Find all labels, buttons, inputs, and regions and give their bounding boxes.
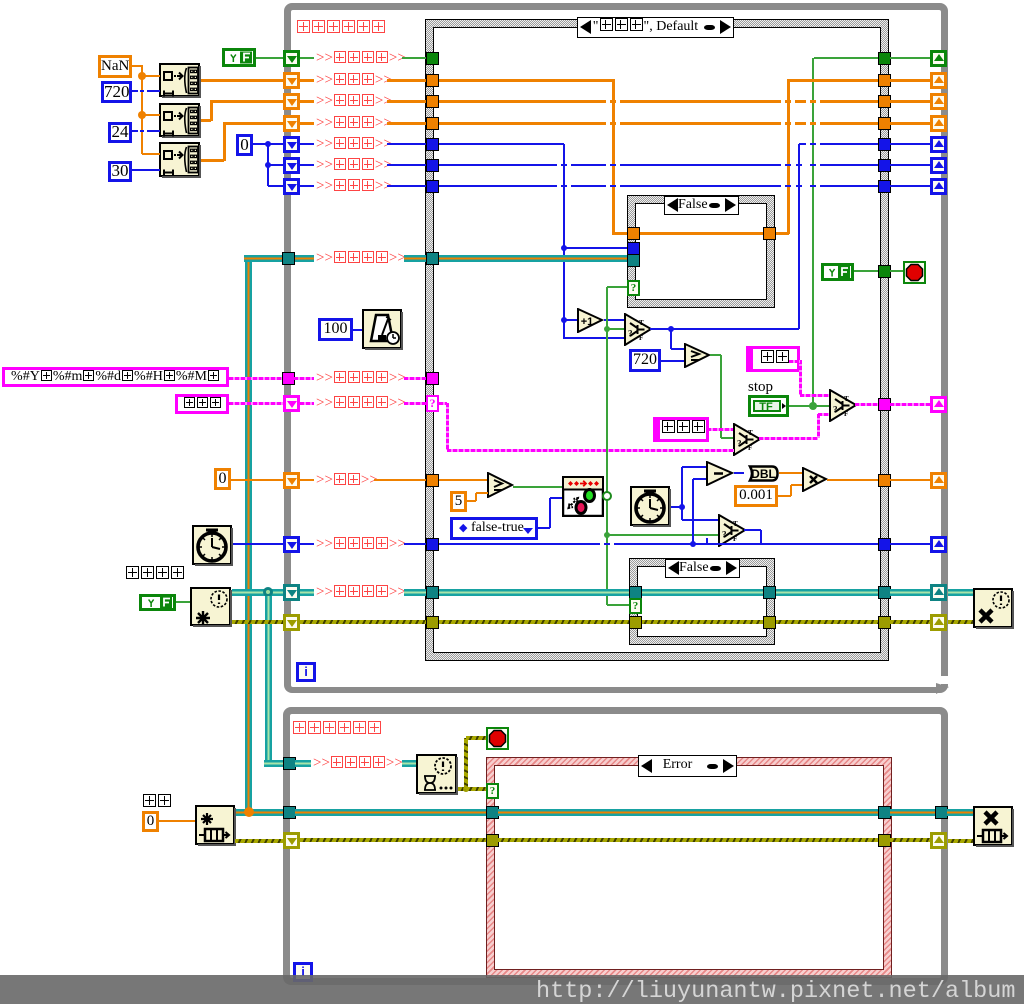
wire 時間格式 seg2 (string) bbox=[404, 377, 426, 380]
label 日計次 bbox=[316, 177, 392, 195]
label 關機動作 bbox=[316, 49, 406, 67]
wire error in case2 (error cluster) bbox=[641, 620, 764, 624]
shift register left error bbox=[283, 614, 300, 631]
wire 24 out a bbox=[132, 130, 138, 132]
label 時間重置 bbox=[316, 535, 406, 553]
tunnel case-right 動作控制 bbox=[878, 398, 891, 411]
tunnel case-left error bbox=[426, 616, 439, 629]
junction error junction loop2 bbox=[463, 786, 469, 792]
wire select3 out (string) bbox=[759, 437, 818, 440]
wire long string wire to select3 bottom (string) bbox=[447, 449, 734, 452]
wire 取樣訊號 in case2 (notifier refnum) bbox=[641, 589, 764, 596]
wire 資料 0 out bbox=[159, 820, 195, 822]
wire error to errcase ? (error cluster) bbox=[466, 787, 486, 791]
case structure (main) border bbox=[425, 19, 889, 661]
wire TF2 out bbox=[854, 270, 878, 272]
icon create notifier 米! bbox=[190, 587, 232, 627]
node greater-equal 5 bbox=[487, 472, 514, 498]
string constant 時記錄 (select input) bbox=[653, 417, 709, 442]
wire queue seg1 (queue refnum) bbox=[295, 255, 314, 262]
svg-text:?: ? bbox=[628, 329, 633, 339]
wire 5 to >= bottom bbox=[476, 492, 488, 494]
wire 時間重置 feed bbox=[233, 543, 284, 545]
tunnel case-left 時計次 bbox=[426, 159, 439, 172]
shift register right row592 bbox=[930, 584, 947, 601]
wire error rise to stop (error cluster vertical) bbox=[464, 738, 468, 789]
junction select1 out junction bbox=[668, 326, 674, 332]
wire 存檔 down (string vertical) bbox=[799, 360, 802, 395]
node select1 bbox=[624, 313, 653, 346]
crossing gap row186 x813 bbox=[806, 184, 810, 187]
wire 秒記錄 seg1 bbox=[300, 79, 314, 82]
junction notifier junction ring bbox=[263, 587, 273, 597]
wire trunk to select1 ? bbox=[607, 328, 624, 330]
wire error to case (error cluster) bbox=[300, 620, 426, 624]
wire 720 out a bbox=[132, 90, 138, 92]
label 日記錄 bbox=[316, 114, 392, 132]
wire 720 out b bbox=[147, 90, 160, 92]
label 資料 (black) bbox=[142, 794, 172, 811]
tunnel case-right row80 bbox=[878, 74, 891, 87]
wire TF out bbox=[256, 57, 284, 59]
wire array3 out riser bbox=[223, 122, 226, 161]
wire 存檔 elbow (string) bbox=[800, 394, 829, 397]
wire select1 rise bbox=[798, 144, 800, 329]
wire error to stop icon (error cluster) bbox=[466, 736, 486, 740]
wire queue corner to loop1 (queue refnum) bbox=[244, 255, 284, 262]
shift register right row404 bbox=[930, 396, 947, 413]
wire 動作控制 feed (string) bbox=[229, 402, 284, 405]
wire to array3 elem bbox=[142, 153, 160, 155]
shift register left 秒記錄 bbox=[283, 72, 300, 89]
shift register left 動作控制 bbox=[283, 395, 300, 412]
wire 時計次 seg1 bbox=[300, 164, 314, 166]
shift register loop2-right error bbox=[930, 832, 947, 849]
constant 30 bbox=[108, 161, 132, 182]
tunnel case2-left 取樣訊號 bbox=[629, 586, 642, 599]
shift register left 關機動作 bbox=[283, 50, 300, 67]
tunnel case2-right error bbox=[763, 616, 776, 629]
wire 秒計次 left part bbox=[439, 143, 564, 145]
wire select3 out rise (string vertical) bbox=[817, 414, 820, 438]
wire 取樣訊號 seg2 (notifier refnum) bbox=[404, 589, 426, 596]
wire 0 to 日計次 bbox=[268, 185, 284, 187]
wire 0.001 rise bbox=[790, 485, 792, 496]
To DBL conversion bbox=[744, 465, 779, 482]
tunnel case-right row58 bbox=[878, 52, 891, 65]
stop sign icon 2 (red octagon) bbox=[486, 727, 509, 750]
wire select1 bottom in bbox=[564, 337, 625, 339]
tunnel case1-right 秒記錄 bbox=[763, 227, 776, 240]
icon release notifier X! bbox=[973, 588, 1014, 629]
wire NaN out bbox=[132, 65, 142, 67]
wire stop out bbox=[789, 405, 829, 407]
wire queue in loop2 (queue refnum) bbox=[295, 809, 486, 816]
wire 0 out bbox=[253, 143, 284, 145]
constant 720 bbox=[101, 81, 132, 103]
label 秒計次 bbox=[316, 135, 392, 153]
wire array3 out bbox=[201, 159, 224, 162]
wire 計時 row into >=5 bbox=[439, 479, 488, 481]
wire 秒記錄 rise bbox=[787, 79, 790, 234]
case structure (Error) border bbox=[486, 757, 892, 978]
wire queue to release (queue refnum) bbox=[947, 809, 973, 816]
node multiply bbox=[802, 467, 828, 492]
tunnel case-left 計時 bbox=[426, 474, 439, 487]
junction 0-branch2 bbox=[265, 162, 271, 168]
svg-text:F: F bbox=[844, 410, 848, 418]
while loop 1 (動作控制迴圈) frame bbox=[284, 3, 948, 693]
wire 日計次 row bbox=[439, 185, 878, 187]
wire queue seg2 (queue refnum) bbox=[404, 255, 426, 262]
wire 取樣訊號 seg1 (notifier refnum) bbox=[300, 589, 314, 596]
label 資料取樣迴圈 bbox=[292, 720, 382, 738]
wire express out bbox=[605, 495, 607, 497]
shift register right row58 bbox=[930, 50, 947, 67]
wire 時計次 seg2 bbox=[387, 164, 426, 166]
wire 秒記錄 into case1 bbox=[612, 232, 628, 235]
wire loop2 error row b (error cluster) bbox=[498, 838, 878, 842]
wire multiply out bbox=[827, 479, 878, 481]
crossing gap row123 x788 bbox=[781, 121, 785, 125]
wire 5 out bbox=[467, 500, 476, 502]
crossing gap row101 x788 bbox=[781, 99, 785, 103]
tunnel case-right 關機確認 bbox=[878, 265, 891, 278]
wire row165 to loop SR bbox=[890, 164, 930, 166]
constant 0 (blue) bbox=[236, 134, 253, 156]
node select3 (時記錄/存檔) bbox=[733, 423, 762, 456]
icon metronome (wait until ms) bbox=[362, 309, 403, 350]
wire clock2 to select4 top bbox=[682, 519, 720, 521]
shift register right row622 bbox=[930, 614, 947, 631]
case2 selector terminal ? bbox=[629, 598, 642, 614]
shift register left 秒計次 bbox=[283, 136, 300, 153]
crossing gap row165 x813 bbox=[806, 163, 810, 166]
wire clock2 drop bbox=[681, 507, 683, 520]
tunnel case1-left queue bbox=[627, 254, 640, 267]
wire error to release (error cluster) bbox=[948, 620, 973, 624]
wire select2 to loop SR (string) bbox=[890, 403, 930, 406]
wire 取樣訊號 in case R (notifier refnum) bbox=[775, 589, 878, 596]
tunnel case-right row165 bbox=[878, 159, 891, 172]
wire array1 out bbox=[201, 79, 284, 82]
tunnel case-left 關機動作 bbox=[426, 52, 439, 65]
wire row80 to loop SR bbox=[890, 79, 930, 82]
wire 秒記錄 out of case1 bbox=[775, 232, 789, 235]
wire 時間重置 to loop SR bbox=[890, 543, 930, 545]
junction 秒計次 branch to case1 bbox=[561, 245, 567, 251]
junction 秒計次 branch to +1 bbox=[561, 317, 567, 323]
svg-text:TF: TF bbox=[759, 401, 773, 413]
wire +1 out bbox=[604, 319, 625, 321]
wire notifier drop to loop2 (notifier refnum vertical) bbox=[265, 596, 272, 766]
wire 日記錄 seg2 bbox=[387, 122, 426, 125]
wire ? out (string) bbox=[439, 402, 447, 405]
shift register right row480 bbox=[930, 472, 947, 489]
junction trunk at select1 bbox=[604, 326, 610, 332]
shift register left 計時 bbox=[283, 472, 300, 489]
wire +1 in bbox=[564, 319, 577, 321]
wire >=5 out (bool) bbox=[513, 486, 562, 488]
wire row123 to loop SR bbox=[890, 122, 930, 125]
case selector label inner 1: False bbox=[664, 196, 739, 215]
wire 時間重置 seg2 bbox=[404, 543, 426, 545]
tunnel case-left 時間重置 bbox=[426, 538, 439, 551]
tunnel case1-left 秒記錄 bbox=[627, 227, 640, 240]
label 動作控制迴圈 bbox=[296, 19, 386, 37]
wire 存檔 to select3 top (string) bbox=[789, 360, 800, 363]
shift register left 時間重置 bbox=[283, 536, 300, 553]
constant 5 bbox=[450, 491, 467, 512]
tunnel errcase-left queue bbox=[486, 806, 499, 819]
wire 時計次 row bbox=[439, 164, 878, 166]
label stop (black) bbox=[748, 379, 773, 396]
shift register left 日記錄 bbox=[283, 115, 300, 132]
crossing gap row186 x613 bbox=[606, 184, 610, 187]
wire false-true rise bbox=[549, 498, 551, 528]
wire 計時 to loop SR bbox=[890, 479, 930, 481]
svg-text:?: ? bbox=[737, 439, 742, 449]
svg-text:T: T bbox=[748, 429, 753, 437]
wire clock2 to subtract top bbox=[682, 466, 706, 468]
crossing gap row123 x613 bbox=[606, 121, 610, 125]
constant NaN bbox=[98, 55, 132, 78]
wire false-true out bbox=[538, 527, 550, 529]
wire queue to loop2 right (queue refnum) bbox=[890, 809, 935, 816]
wire 時記錄c to select3 (string) bbox=[707, 428, 734, 431]
wire select3 to select2 bottom (string) bbox=[818, 413, 829, 416]
wire row58 to loop SR bbox=[890, 57, 930, 59]
crossing gap row101 x613 bbox=[606, 99, 610, 103]
wire 關機動作 seg2 bbox=[402, 57, 426, 59]
junction feed array1 bbox=[138, 72, 146, 80]
loop1 corner notch bbox=[938, 676, 950, 684]
svg-text:T: T bbox=[844, 395, 849, 403]
wire array2 out riser bbox=[210, 100, 213, 121]
constant 100 (wait ms) bbox=[318, 318, 353, 341]
string constant 時間格式 %#Y年%#m月%#d日%#H時%#M分 bbox=[2, 367, 229, 387]
label 資料擷取 bbox=[316, 249, 406, 267]
wire 秒計次 drop bbox=[563, 144, 565, 339]
wire error to loop SR (error cluster) bbox=[890, 620, 930, 624]
tunnel case2-left error bbox=[629, 616, 642, 629]
case1 selector terminal ? bbox=[627, 280, 640, 296]
wire 0.001 to multiply bbox=[791, 484, 802, 486]
shift register right row165 bbox=[930, 157, 947, 174]
wire row101 to loop SR bbox=[890, 100, 930, 103]
tunnel errcase-left error bbox=[486, 834, 499, 847]
label 取樣訊號 (black) bbox=[125, 566, 185, 583]
crossing gap row544 x607 bbox=[600, 542, 604, 545]
wire row186 to loop SR bbox=[890, 185, 930, 187]
wire 秒計次 to case1 tunnel bbox=[564, 247, 628, 249]
wire 關機動作 seg1 bbox=[300, 57, 314, 59]
crossing gap row186 x564 bbox=[557, 184, 561, 187]
constant 0 (資料) bbox=[142, 811, 159, 832]
wire 秒記錄 inside case1 bbox=[640, 232, 763, 235]
junction clock2 junction bbox=[679, 504, 685, 510]
wire notifier band over trunk (notifier refnum) bbox=[600, 589, 614, 596]
tunnel case-right 計時 bbox=[878, 474, 891, 487]
wire 日計次 seg1 bbox=[300, 185, 314, 187]
wire 秒記錄 seg2 bbox=[387, 79, 426, 82]
wire to array1 elem bbox=[142, 75, 160, 77]
wire 秒記錄 drop bbox=[612, 79, 615, 234]
label 動作控制 bbox=[316, 394, 406, 412]
case selector label inner 2: False bbox=[665, 559, 740, 578]
crossing gap row165 x613 bbox=[606, 163, 610, 166]
wire ? drop (string vertical) bbox=[446, 403, 449, 450]
tunnel case-right row186 bbox=[878, 180, 891, 193]
enum constant false-true bbox=[450, 517, 538, 540]
wire 動作控制 seg1 (string) bbox=[300, 402, 314, 405]
wire 30 out bbox=[132, 169, 160, 171]
boolean constant TF 取樣訊號 (F) bbox=[139, 594, 176, 611]
tunnel errcase-right queue bbox=[878, 806, 891, 819]
iteration terminal i (loop1) bbox=[296, 662, 316, 682]
wire to case1 ? bbox=[607, 286, 627, 288]
tunnel case-left 秒計次 bbox=[426, 138, 439, 151]
wire 時間格式 feed (string) bbox=[229, 377, 284, 380]
wire 日記錄 seg1 bbox=[300, 122, 314, 125]
wire wait-notifier error out (error cluster) bbox=[458, 787, 466, 791]
boolean constant TF top-left (F) bbox=[222, 48, 256, 67]
crossing gap row165 x799 bbox=[792, 163, 796, 166]
tunnel errcase-right error bbox=[878, 834, 891, 847]
wire to case2 ? bbox=[607, 604, 629, 606]
wire TF to notifier bbox=[176, 601, 190, 603]
svg-text:?: ? bbox=[833, 405, 838, 415]
tunnel case-right row123 bbox=[878, 117, 891, 130]
junction notifier junction ring inner bbox=[266, 590, 270, 594]
node subtract bbox=[706, 461, 734, 486]
wire 取樣訊號 to loop SR (notifier refnum) bbox=[890, 589, 930, 596]
icon release queue X-Ⅲ→ bbox=[973, 806, 1014, 847]
wire DBL out bbox=[779, 472, 802, 474]
label 時間格式 bbox=[316, 369, 406, 387]
tunnel case-left 時間格式 bbox=[426, 372, 439, 385]
wire 計時 feed bbox=[231, 479, 284, 481]
wire 時間格式 seg1 (string) bbox=[294, 377, 314, 380]
crossing gap row101 x813 bbox=[806, 99, 810, 103]
wire array2 to SR bbox=[211, 100, 284, 103]
tunnel case-left 時記錄 bbox=[426, 95, 439, 108]
wire trunk to select4 ? bbox=[607, 534, 720, 536]
watermark band bbox=[0, 975, 1024, 1004]
tunnel case1-left 秒計次 bbox=[627, 242, 640, 255]
wire loop2 取樣訊號 seg1 (notifier refnum) bbox=[295, 760, 311, 767]
node select2 (to 動作控制 SR) bbox=[829, 389, 858, 422]
svg-text:T: T bbox=[639, 319, 644, 327]
node select4 (time reset) bbox=[718, 514, 747, 547]
tunnel case-right 時間重置 bbox=[878, 538, 891, 551]
wire select4 out drop bbox=[760, 530, 762, 544]
wire 時記錄 seg1 bbox=[300, 100, 314, 103]
case selector terminal ? bbox=[426, 395, 439, 412]
shift register right row80 bbox=[930, 72, 947, 89]
label 時計次 bbox=[316, 156, 392, 174]
svg-text:T: T bbox=[733, 520, 738, 528]
wire 0 to 時計次 bbox=[268, 164, 284, 166]
wire 時記錄 row bbox=[439, 100, 878, 103]
tunnel case-left 取樣訊號 bbox=[426, 586, 439, 599]
wire loop2 error to release (error cluster) bbox=[948, 839, 973, 843]
icon initialize array 2 bbox=[159, 103, 201, 138]
wire clock2 rise bbox=[681, 467, 683, 507]
boolean constant TF in-case right (F) bbox=[821, 263, 854, 281]
wire row 544 in case bbox=[439, 543, 878, 545]
watermark url text bbox=[536, 978, 1015, 1005]
wire 100 out bbox=[353, 329, 362, 331]
tunnel case-right 取樣訊號 bbox=[878, 586, 891, 599]
wire array3 to SR bbox=[224, 122, 284, 125]
wire subtract out bbox=[734, 472, 744, 474]
wire row544 riser to select4 bbox=[706, 538, 708, 544]
crossing gap row165 x564 bbox=[557, 163, 561, 166]
label 取樣訊號 bbox=[316, 583, 406, 601]
wire NaN vertical feeder bbox=[141, 65, 143, 154]
tunnel case-right row144 bbox=[878, 138, 891, 151]
shift register left 日計次 bbox=[283, 178, 300, 195]
iteration terminal i (loop2) bbox=[293, 962, 313, 982]
stop sign icon (red octagon) bbox=[903, 261, 926, 284]
tunnel loop2-right queue bbox=[935, 806, 948, 819]
wire 秒記錄 right part bbox=[788, 79, 878, 82]
wire to >=720 top bbox=[671, 348, 684, 350]
wire row544 rise to subtract bbox=[692, 479, 694, 544]
case selector label main: "秒記錄", Default bbox=[577, 17, 734, 38]
wire >=720 down to select2? bbox=[720, 355, 722, 438]
crossing gap row186 x788 bbox=[781, 184, 785, 187]
shift register right row544 bbox=[930, 536, 947, 553]
tunnel case-left 秒記錄 bbox=[426, 74, 439, 87]
wire 秒計次 seg1 bbox=[300, 143, 314, 145]
wire 關機動作 wire in case bbox=[814, 57, 878, 59]
icon clock (time reset source) bbox=[192, 525, 233, 566]
wire notifier elbow into loop2 (notifier refnum) bbox=[264, 760, 284, 767]
label 時記錄 bbox=[316, 92, 392, 110]
shift register left 時記錄 bbox=[283, 93, 300, 110]
wire error from notifier (error cluster) bbox=[232, 620, 284, 624]
label 計時 bbox=[316, 471, 378, 489]
svg-text:F: F bbox=[733, 535, 737, 543]
wire express boolean trunk bbox=[606, 287, 608, 605]
wire queue in errcase (queue refnum) bbox=[498, 809, 878, 816]
wire 秒計次 seg2 bbox=[387, 143, 426, 145]
wire 動作控制 seg2 (string) bbox=[404, 402, 426, 405]
tunnel case-right row101 bbox=[878, 95, 891, 108]
shift register left 時計次 bbox=[283, 157, 300, 174]
wire clock2 out bbox=[671, 506, 682, 508]
junction ring express out bbox=[602, 491, 612, 501]
tunnel case-right error bbox=[878, 616, 891, 629]
wire select1 out bbox=[650, 328, 799, 330]
wire 時記錄 seg2 bbox=[387, 100, 426, 103]
junction queue junction bbox=[244, 807, 254, 817]
wire 720 to >= bottom bbox=[661, 360, 684, 362]
wire 日計次 seg2 bbox=[387, 185, 426, 187]
boolean control stop (TF) bbox=[748, 395, 789, 417]
wire select2 out (string) bbox=[855, 403, 878, 406]
wire stop-chain vertical bbox=[812, 58, 814, 406]
wire error in case R (error cluster) bbox=[775, 620, 878, 624]
icon initialize array 1 bbox=[159, 63, 201, 98]
svg-text:?: ? bbox=[722, 530, 727, 540]
tunnel loop2-left queue bbox=[283, 806, 296, 819]
crossing gap row165 x788 bbox=[781, 163, 785, 166]
wire loop2 error row c (error cluster) bbox=[890, 838, 930, 842]
icon stopwatch clock bbox=[630, 486, 671, 527]
